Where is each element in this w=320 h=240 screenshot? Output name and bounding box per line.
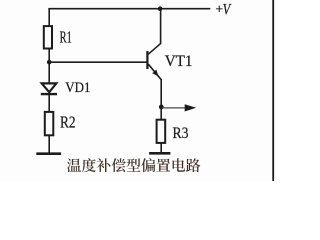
ground (right) — [149, 152, 170, 155]
node A (junction dot) — [47, 60, 52, 65]
wire: rail corner down to R1 — [48, 8, 50, 27]
ground (left) — [36, 152, 61, 155]
output arrow — [161, 104, 196, 111]
wire: +V supply rail (top horizontal) — [48, 8, 210, 10]
resistor R1 — [44, 26, 52, 48]
resistor R3 — [157, 120, 166, 143]
wire: emitter drop to node C — [160, 79, 162, 107]
wire: R1 to node A — [48, 48, 50, 62]
wire: collector drop from rail — [160, 9, 162, 44]
caption: 温度补偿型偏置电路 — [67, 158, 200, 172]
label +V — [215, 1, 232, 18]
node B (rail junction above VT1) — [158, 6, 163, 11]
svg-text:R2: R2 — [60, 112, 76, 131]
resistor R2 — [45, 112, 54, 135]
svg-text:R3: R3 — [173, 125, 189, 142]
wire: node A to VT1 base — [49, 61, 146, 63]
wire: R2 to ground — [48, 135, 50, 153]
svg-text:VT1: VT1 — [165, 53, 193, 70]
svg-text:V: V — [223, 1, 232, 18]
diode VD1 — [41, 83, 57, 94]
wire: R3 to ground — [160, 143, 162, 153]
svg-text:R1: R1 — [60, 28, 72, 47]
node C (emitter junction) — [159, 105, 164, 110]
wire: node A down to VD1 — [48, 62, 50, 83]
transistor VT1 — [147, 43, 161, 79]
wire: node C to R3 — [160, 107, 162, 121]
wire: VD1 to R2 — [48, 95, 50, 113]
svg-text:VD1: VD1 — [65, 80, 90, 96]
